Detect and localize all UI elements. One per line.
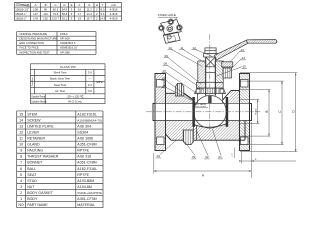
svg-text:04: 04 [157, 154, 161, 158]
stem nut [205, 48, 216, 54]
svg-text:BALL: BALL [27, 167, 36, 171]
svg-text:150Lb: 150Lb [60, 32, 68, 36]
body cross-section hatch right [228, 91, 245, 104]
stem washer [204, 54, 218, 58]
svg-text:LEVER: LEVER [27, 130, 39, 134]
stem (item 15) [206, 57, 216, 96]
svg-text:Back Seat Test: Back Seat Test [50, 77, 70, 81]
lever arm (item 12) [215, 40, 249, 60]
svg-text:14: 14 [242, 56, 246, 60]
svg-text:F: F [79, 3, 81, 7]
svg-text:THRUST WASHER: THRUST WASHER [27, 155, 59, 159]
svg-text:B: B [265, 110, 269, 112]
svg-text:17: 17 [78, 12, 82, 16]
svg-text:11: 11 [19, 137, 23, 141]
bonnet sleeve right [215, 61, 223, 82]
svg-text:79.4: 79.4 [53, 12, 59, 16]
svg-text:03: 03 [192, 155, 196, 159]
bonnet flange [195, 88, 226, 93]
svg-text:3-R: 3-R [232, 153, 234, 157]
svg-text:ASME B16.5: ASME B16.5 [60, 41, 76, 45]
lever grip [247, 40, 277, 44]
svg-text:STEM: STEM [27, 112, 37, 116]
body cross-section hatch left [166, 93, 198, 103]
svg-text:01: 01 [219, 155, 223, 159]
centerline stem vertical [209, 34, 211, 130]
svg-text:A194-8M: A194-8M [77, 185, 92, 189]
svg-text:Air Test: Air Test [55, 89, 65, 93]
svg-text:NOMINAL PRESSURE: NOMINAL PRESSURE [20, 32, 48, 36]
dimension extension lines right [240, 73, 297, 152]
svg-text:Suitable Media: Suitable Media [31, 100, 47, 103]
svg-text:MPa: MPa [96, 80, 103, 84]
svg-text:9.6: 9.6 [101, 12, 105, 16]
svg-text:—: — [88, 77, 91, 81]
svg-text:150LB 2": 150LB 2" [15, 16, 26, 20]
stem head cross [206, 57, 216, 67]
svg-text:14.2: 14.2 [86, 12, 92, 16]
dimension D [295, 73, 297, 152]
svg-text:14: 14 [19, 118, 23, 122]
svg-text:D: D [63, 3, 65, 7]
svg-text:FACE TO FACE: FACE TO FACE [20, 46, 39, 50]
svg-text:7: 7 [20, 161, 22, 165]
svg-text:11.2: 11.2 [87, 7, 93, 11]
svg-text:E: E [71, 3, 73, 7]
svg-text:10: 10 [169, 46, 173, 50]
svg-text:2.2: 2.2 [88, 83, 93, 87]
limited plate (item 13) [222, 62, 233, 67]
dimension C [281, 81, 283, 145]
leader to fixed hole [173, 17, 178, 22]
svg-text:19: 19 [78, 16, 82, 20]
svg-text:AISI 316: AISI 316 [77, 155, 91, 159]
svg-text:A351-CF8M: A351-CF8M [77, 143, 96, 147]
seat left (item 5) [192, 97, 195, 127]
hidden hole lower [167, 35, 171, 39]
svg-text:178: 178 [33, 16, 38, 20]
svg-text:60.3: 60.3 [53, 7, 59, 11]
dimension A face-to-face [154, 122, 252, 178]
svg-text:34.9: 34.9 [62, 7, 68, 11]
svg-text:13: 13 [241, 48, 245, 52]
ball [194, 96, 227, 129]
table: test pressure CLASS 150 [31, 64, 106, 104]
svg-text:AISI 304: AISI 304 [77, 124, 91, 128]
bolt hole circles [159, 20, 181, 30]
svg-text:6: 6 [20, 167, 22, 171]
table: design specification [17, 32, 96, 55]
svg-text:END CONNECTION: END CONNECTION [20, 41, 45, 45]
svg-text:127: 127 [33, 12, 38, 16]
svg-text:LIMITED PLATE: LIMITED PLATE [27, 124, 54, 128]
svg-text:C: C [54, 3, 56, 7]
centerline horizontal [146, 111, 261, 113]
svg-text:4-Φ16: 4-Φ16 [110, 7, 118, 11]
bonnet sleeve left (item 7) [198, 61, 206, 82]
svg-text:SEAT: SEAT [27, 173, 37, 177]
svg-text:W.O.G.etc: W.O.G.etc [68, 99, 82, 103]
svg-text:CLASS\NB: CLASS\NB [16, 3, 30, 7]
seat right [226, 97, 229, 127]
bore lines [155, 103, 250, 120]
svg-text:H: H [96, 3, 98, 7]
svg-text:ASME B16.10: ASME B16.10 [60, 46, 77, 50]
stem tang in ball [208, 96, 211, 104]
svg-text:G: G [88, 3, 90, 7]
svg-text:T: T [102, 3, 104, 7]
svg-text:150LB 1": 150LB 1" [15, 12, 26, 16]
svg-text:3.0: 3.0 [88, 71, 93, 75]
svg-text:12: 12 [19, 130, 23, 134]
svg-text:-29~+120 ℃: -29~+120 ℃ [66, 94, 84, 98]
svg-text:PART NAME: PART NAME [27, 203, 48, 207]
dimension B [268, 90, 270, 137]
svg-text:NUT: NUT [27, 185, 35, 189]
svg-text:A193-B8M: A193-B8M [77, 179, 94, 183]
callout leaders [160, 50, 243, 156]
svg-text:NO: NO [18, 203, 24, 207]
svg-text:RPTFE: RPTFE [77, 173, 89, 177]
svg-text:n-th: n-th [111, 3, 116, 7]
svg-text:SuitableTemp.: SuitableTemp. [31, 95, 46, 98]
body pocket under ball [193, 124, 227, 127]
svg-text:A: A [35, 3, 37, 7]
svg-text:A193-B8M(A4-70): A193-B8M(A4-70) [77, 118, 102, 122]
svg-text:BODY GASKET: BODY GASKET [27, 191, 54, 195]
svg-text:MATERIAL: MATERIAL [77, 203, 95, 207]
bolt holes left flange [157, 80, 165, 145]
hex nut on body left (items 3,4) [175, 83, 184, 96]
screw (item 14) [223, 68, 232, 78]
svg-text:Seat Test: Seat Test [54, 83, 67, 87]
drain plug [183, 130, 193, 145]
svg-text:RETAINER: RETAINER [27, 137, 45, 141]
svg-text:02: 02 [205, 155, 209, 159]
body outer contour [166, 91, 246, 141]
svg-text:12: 12 [193, 46, 197, 50]
svg-text:5: 5 [20, 173, 22, 177]
svg-text:90: 90 [44, 7, 48, 11]
svg-text:13: 13 [19, 124, 23, 128]
svg-text:PACKING: PACKING [27, 149, 43, 153]
svg-text:15.7: 15.7 [86, 16, 92, 20]
svg-text:06: 06 [162, 77, 166, 81]
svg-text:A351-CF3M: A351-CF3M [77, 197, 96, 201]
svg-text:4-Φ19: 4-Φ19 [110, 16, 118, 20]
svg-text:92.1: 92.1 [62, 16, 68, 20]
svg-text:8: 8 [20, 155, 22, 159]
table: flange dimension chart [15, 3, 31, 8]
callout numbers [156, 46, 247, 159]
svg-text:15: 15 [19, 112, 23, 116]
bonnet studs [196, 89, 200, 93]
dimension t small [234, 148, 236, 158]
label: FIXED HOLE note [158, 13, 176, 17]
body marking text [194, 103, 207, 108]
svg-text:4-Φ16: 4-Φ16 [110, 12, 118, 16]
svg-text:10: 10 [19, 143, 23, 147]
svg-text:A182-F316L: A182-F316L [77, 167, 97, 171]
table: parts list / bill of materials [17, 111, 103, 208]
packing gland base (item 9 packing area) [196, 82, 223, 88]
svg-text:120.7: 120.7 [52, 16, 59, 20]
svg-text:16: 16 [78, 7, 82, 11]
svg-text:11: 11 [180, 46, 183, 50]
dimension L flange thickness [242, 152, 296, 164]
svg-text:9: 9 [20, 149, 22, 153]
body joint lines left [193, 124, 195, 140]
svg-text:108: 108 [33, 7, 38, 11]
svg-text:SS304: SS304 [77, 130, 88, 134]
svg-text:DESIGN AND MANUFACTURE: DESIGN AND MANUFACTURE [20, 37, 58, 41]
svg-text:150LB-1/2": 150LB-1/2" [15, 7, 29, 11]
left flange hatch [155, 74, 166, 104]
svg-text:STUD: STUD [27, 179, 37, 183]
svg-text:BODY: BODY [27, 197, 38, 201]
mounting pad top view [161, 20, 182, 44]
dimension Rc1/4 [257, 99, 259, 123]
svg-text:BONNET: BONNET [27, 161, 43, 165]
stem center circles [167, 26, 173, 32]
svg-text:150: 150 [43, 16, 48, 20]
svg-text:05: 05 [163, 84, 167, 88]
svg-text:07: 07 [163, 69, 167, 73]
right flange hatch [240, 74, 250, 104]
svg-text:INSPECTION AND TEST: INSPECTION AND TEST [20, 50, 51, 54]
svg-text:SCREW: SCREW [27, 118, 41, 122]
svg-text:110: 110 [43, 12, 48, 16]
svg-text:SS316L+GRAPHITE: SS316L+GRAPHITE [77, 191, 102, 195]
svg-text:API 608: API 608 [60, 37, 70, 41]
svg-text:RPTFE: RPTFE [77, 149, 89, 153]
svg-text:14.3: 14.3 [100, 16, 106, 20]
svg-text:B: B [45, 3, 47, 7]
svg-text:50.8: 50.8 [62, 12, 68, 16]
svg-text:API 598: API 598 [60, 50, 70, 54]
svg-text:GLAND: GLAND [27, 143, 40, 147]
svg-text:3: 3 [20, 185, 22, 189]
svg-text:A351-CF8M: A351-CF8M [77, 161, 96, 165]
svg-text:4: 4 [20, 179, 22, 183]
svg-text:Rc1/4: Rc1/4 [256, 108, 258, 114]
svg-text:2: 2 [20, 191, 22, 195]
svg-text:Test Pres.: Test Pres. [31, 76, 34, 86]
svg-text:1: 1 [20, 197, 22, 201]
svg-text:0.6: 0.6 [88, 89, 93, 93]
svg-text:15: 15 [243, 65, 247, 69]
svg-text:Shell Test: Shell Test [54, 71, 67, 75]
svg-text:AISI 1066: AISI 1066 [77, 137, 93, 141]
svg-text:FIXED HOLE: FIXED HOLE [158, 13, 176, 17]
flange right outline [240, 74, 252, 151]
svg-text:CLASS 150: CLASS 150 [60, 65, 76, 69]
svg-text:8.0: 8.0 [101, 7, 105, 11]
svg-text:09: 09 [165, 54, 169, 58]
flange left outline [153, 74, 166, 151]
svg-text:A182 F316L: A182 F316L [77, 112, 97, 116]
bolt holes right flange [241, 80, 249, 145]
svg-text:08: 08 [164, 62, 168, 66]
